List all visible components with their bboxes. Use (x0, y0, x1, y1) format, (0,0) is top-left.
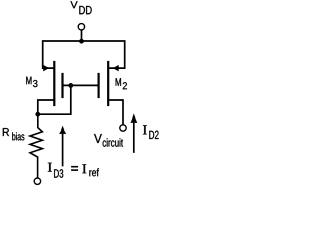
label M of M2 (116, 78, 121, 86)
label D2 subscript (149, 131, 158, 139)
transistor M3 source arrow (43, 65, 49, 72)
label V of V_circuit (94, 134, 102, 143)
label DD subscript (79, 6, 91, 14)
V_DD terminal circle (78, 24, 84, 30)
wire M2 drain lead down to V_circuit terminal (108, 100, 123, 125)
label equals sign bars (71, 166, 78, 168)
transistor M2 gate bar (97, 74, 99, 97)
label D3 subscript (54, 169, 63, 178)
label ref subscript (89, 168, 99, 176)
label 2 subscript of M2 (123, 82, 127, 89)
transistor M2 source arrow (113, 65, 119, 72)
label 3 subscript of M3 (33, 80, 38, 87)
current arrow I_D2 head (131, 113, 138, 123)
wire V_DD stub (81, 30, 83, 41)
node junction dot at rail (79, 39, 84, 44)
current arrow I_D3 line (62, 134, 64, 166)
wire diode connection from gate dot down to drain node (38, 85, 71, 114)
label M of M3 (26, 77, 31, 85)
label I of I_ref (82, 164, 86, 173)
current arrow I_D3 head (59, 126, 66, 134)
wire top rail with drops to M3 and M2 sources (43, 41, 125, 68)
R_bias bottom terminal circle (34, 178, 40, 184)
label V of V_DD (70, 1, 77, 8)
label I of I_D3 (48, 163, 52, 172)
transistor M3 gate bar (61, 74, 63, 97)
wire gate rail connecting M3 gate to M2 gate (63, 84, 99, 86)
wire M3 drain lead (38, 100, 55, 114)
current arrow I_D2 line (133, 123, 135, 152)
transistor M2 channel bar (107, 62, 109, 105)
label bias subscript (12, 132, 24, 140)
V_circuit terminal circle (120, 125, 126, 131)
node gate junction dot (68, 83, 73, 88)
node A junction dot (35, 112, 40, 117)
label I of I_D2 (143, 125, 147, 134)
label R of R_bias (3, 128, 9, 136)
resistor R_bias (30, 114, 42, 178)
label circuit subscript (103, 138, 123, 146)
transistor M3 channel bar (53, 62, 55, 105)
